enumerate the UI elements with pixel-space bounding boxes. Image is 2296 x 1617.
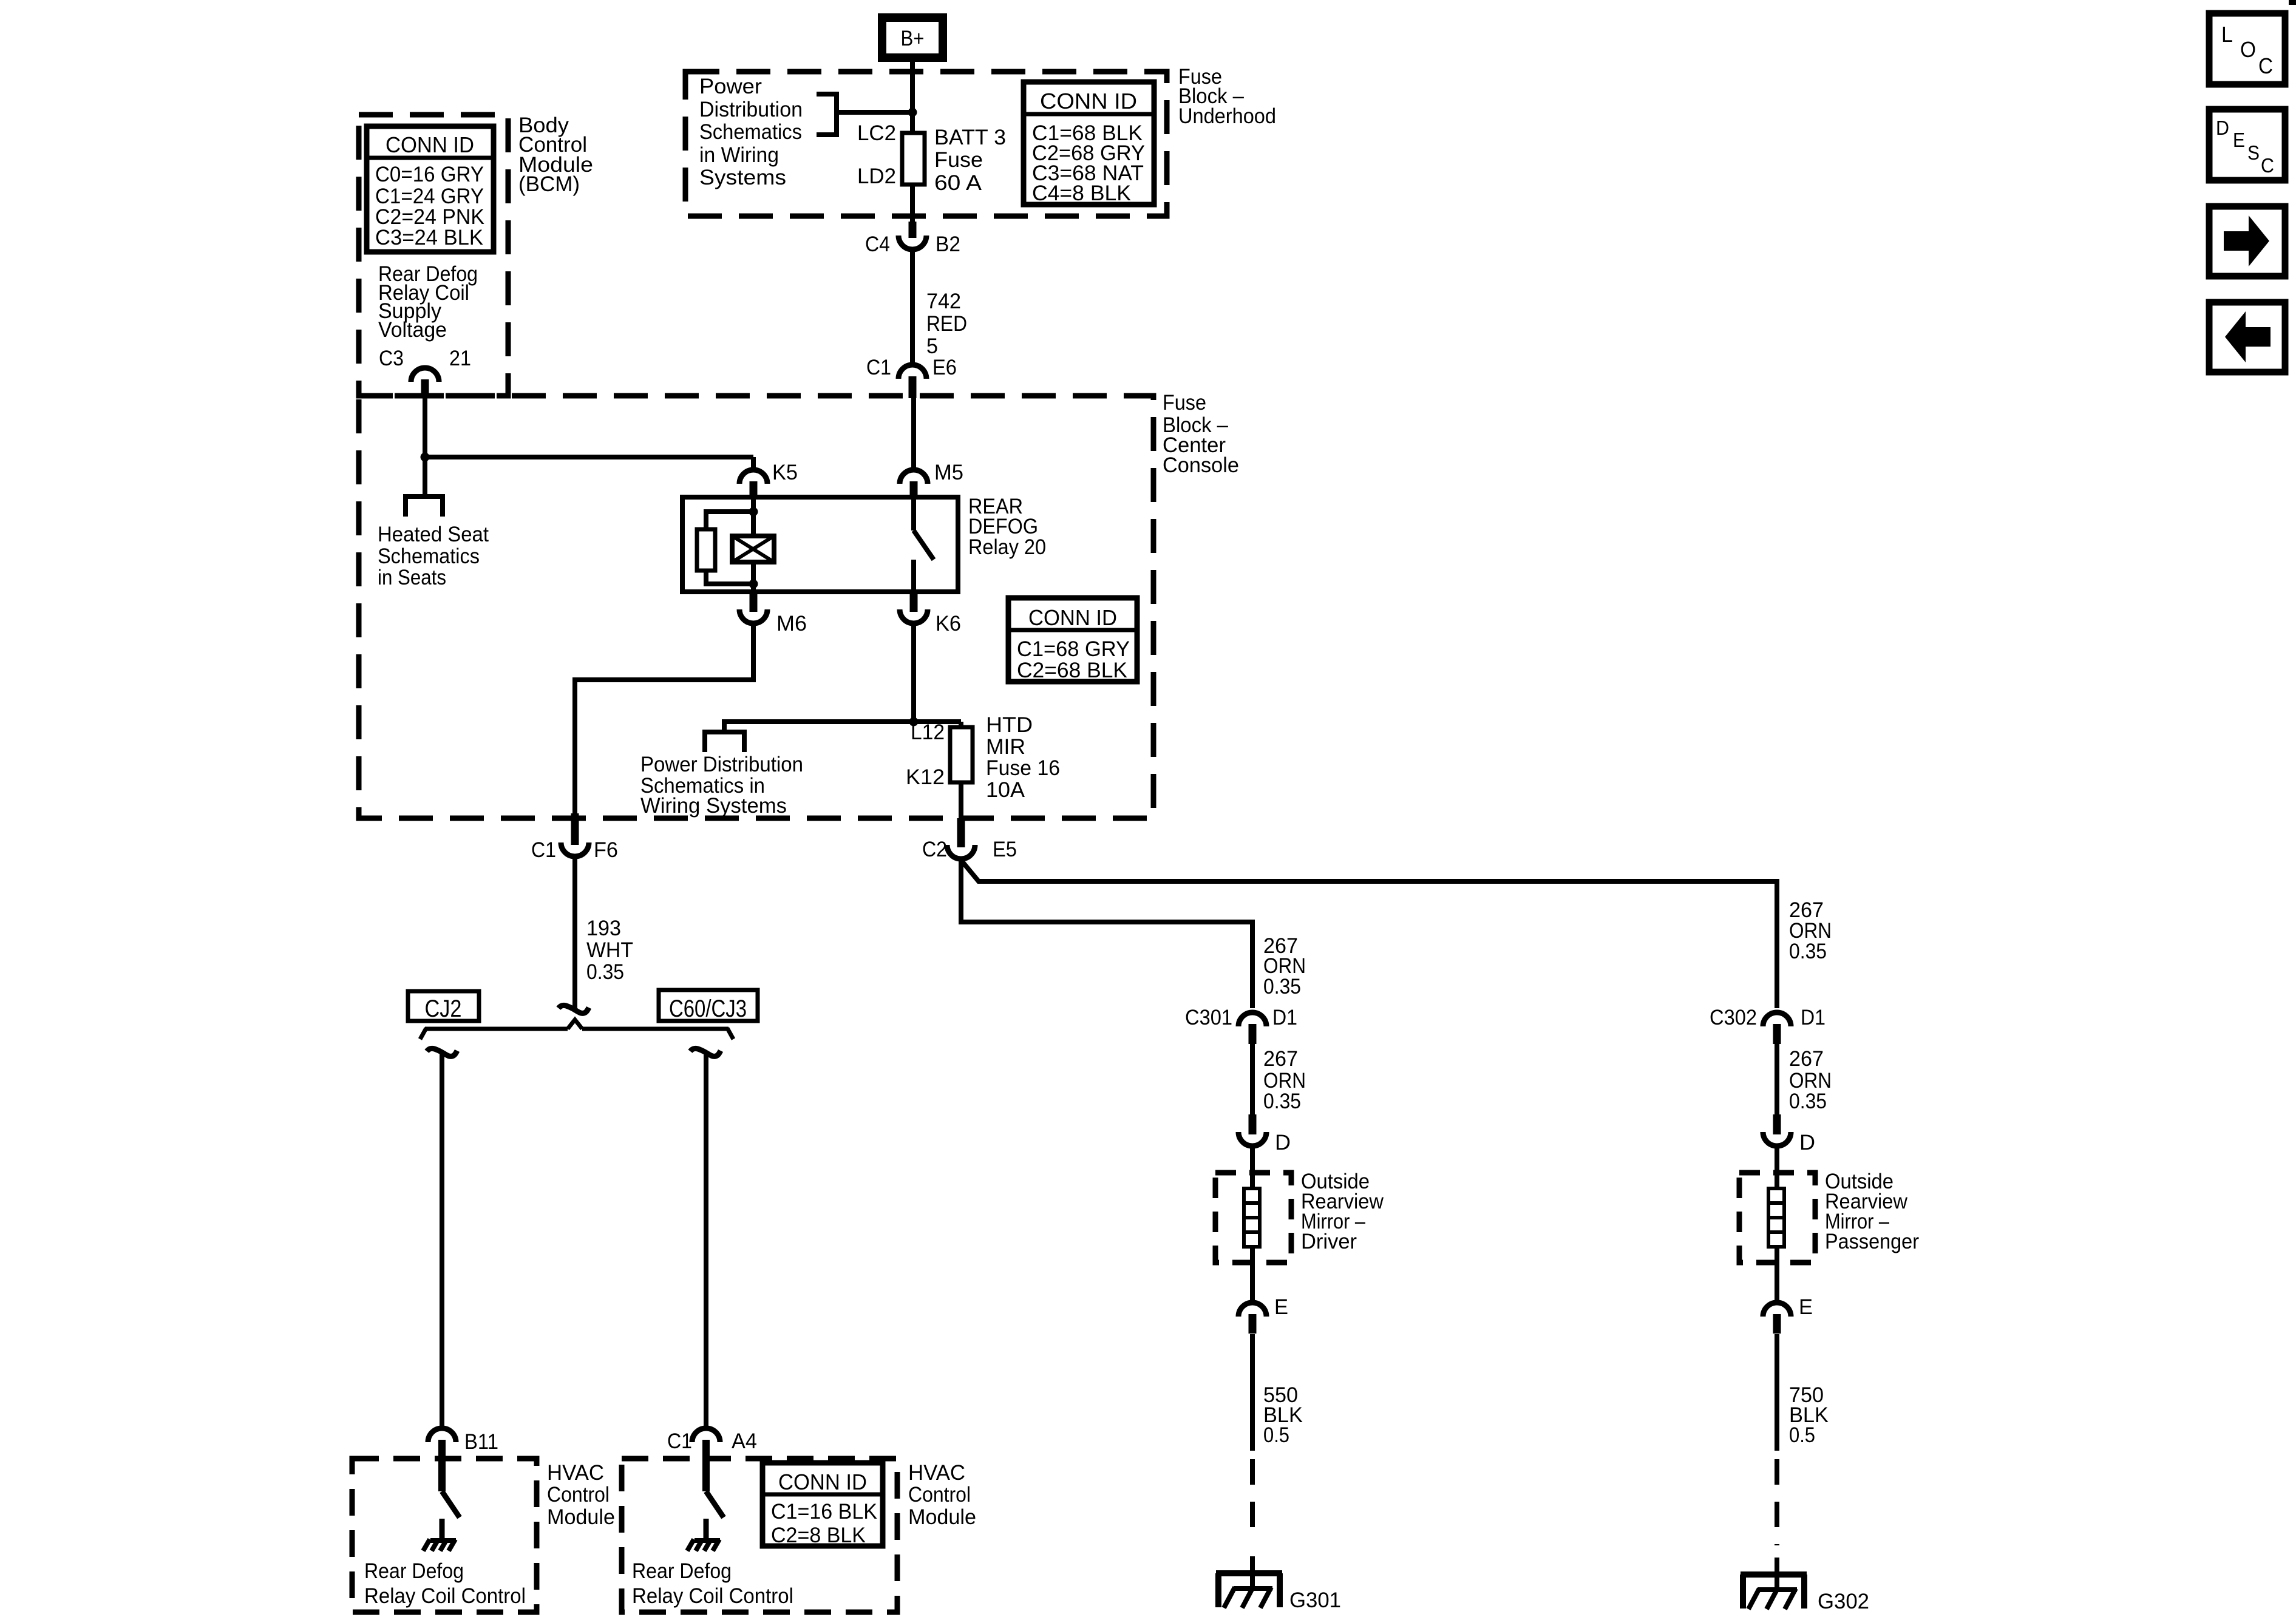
svg-text:CJ2: CJ2 — [425, 995, 462, 1022]
svg-text:CONN ID: CONN ID — [385, 132, 474, 157]
svg-text:L12: L12 — [911, 720, 945, 744]
svg-text:Module: Module — [547, 1505, 615, 1529]
svg-text:(BCM): (BCM) — [518, 172, 580, 196]
svg-text:C1: C1 — [667, 1429, 692, 1453]
svg-text:E6: E6 — [932, 356, 957, 379]
svg-text:Fuse: Fuse — [934, 148, 983, 172]
svg-text:LD2: LD2 — [857, 164, 896, 188]
icon DESC box — [2209, 109, 2285, 180]
svg-text:Control: Control — [908, 1483, 971, 1507]
connector C302 D1 — [1763, 1012, 1791, 1026]
svg-text:B11: B11 — [464, 1430, 498, 1454]
relay coil wire bottom — [751, 562, 756, 592]
svg-text:O: O — [2240, 37, 2256, 62]
svg-text:L: L — [2221, 22, 2233, 47]
svg-text:MIR: MIR — [986, 735, 1025, 759]
connector C60/CJ3 box — [659, 990, 758, 1021]
svg-text:Power: Power — [699, 75, 762, 98]
splice below C60/CJ3 — [690, 1048, 721, 1056]
svg-text:0.35: 0.35 — [586, 960, 624, 984]
connector CJ2 box — [408, 991, 479, 1021]
fuse BATT 3 60A — [902, 133, 925, 185]
connector K5 — [739, 470, 767, 484]
svg-text:CONN ID: CONN ID — [1028, 605, 1117, 630]
connector C1 F6 — [561, 842, 589, 856]
connector C1 E6 — [898, 365, 926, 379]
svg-text:193: 193 — [586, 917, 621, 940]
svg-text:CONN ID: CONN ID — [1040, 89, 1137, 114]
wire to power distribution bracket — [724, 722, 961, 730]
svg-text:D1: D1 — [1801, 1006, 1826, 1029]
svg-text:C302: C302 — [1710, 1006, 1757, 1029]
relay resistor parallel — [706, 512, 753, 529]
wire bracket to node — [837, 110, 912, 115]
svg-text:WHT: WHT — [586, 938, 633, 962]
wire C1 F6 pin — [571, 813, 579, 845]
svg-text:D: D — [1799, 1131, 1815, 1154]
mirror heater element passenger — [1775, 1148, 1779, 1188]
svg-text:HVAC: HVAC — [547, 1461, 604, 1485]
svg-text:Schematics: Schematics — [378, 544, 480, 568]
svg-text:C1=16 BLK: C1=16 BLK — [771, 1500, 877, 1524]
wire E to ground driver — [1250, 1334, 1255, 1451]
wire BCM C3 to junction — [423, 398, 427, 457]
node junction heated seat tap — [421, 453, 430, 462]
icon forward-arrow box — [2209, 206, 2285, 276]
svg-text:267: 267 — [1789, 1047, 1824, 1071]
svg-text:E: E — [2233, 129, 2245, 151]
CONN ID table console — [1008, 598, 1137, 682]
off-page bracket to power distribution — [817, 94, 837, 135]
connector C1 A4 — [692, 1428, 720, 1442]
icon LOC box — [2209, 13, 2285, 84]
outside rearview mirror driver box — [1215, 1173, 1291, 1263]
hvac control module box right — [622, 1459, 897, 1612]
wire B+ to fuse — [910, 62, 915, 133]
svg-text:Systems: Systems — [699, 166, 786, 189]
svg-text:G301: G301 — [1289, 1588, 1341, 1612]
wire junction to heated seat bracket — [423, 457, 427, 497]
svg-text:CONN ID: CONN ID — [778, 1470, 867, 1494]
fuse block underhood box — [685, 72, 1167, 216]
svg-text:Voltage: Voltage — [378, 318, 447, 342]
svg-text:Fuse: Fuse — [1163, 391, 1206, 415]
svg-text:F6: F6 — [594, 838, 618, 862]
switch rear defog relay coil control right — [706, 1491, 724, 1517]
splice below CJ2 — [427, 1048, 457, 1056]
svg-text:C4: C4 — [865, 232, 890, 256]
body control module box — [359, 115, 508, 396]
connector M6 — [750, 592, 758, 612]
svg-text:Passenger: Passenger — [1825, 1230, 1919, 1253]
relay REAR DEFOG Relay 20 box — [682, 497, 958, 592]
splice pack brace — [425, 1020, 729, 1029]
wire fuse 16 to C2-E5 — [959, 782, 963, 818]
svg-text:D1: D1 — [1272, 1006, 1297, 1029]
connector B11 — [428, 1428, 456, 1442]
svg-text:267: 267 — [1263, 1047, 1298, 1071]
svg-text:C: C — [2261, 154, 2274, 177]
svg-text:60 A: 60 A — [934, 171, 982, 195]
svg-text:10A: 10A — [986, 778, 1025, 802]
relay coil wire top — [751, 499, 756, 536]
off-page bracket to heated seat schematics — [406, 497, 443, 517]
svg-text:BATT 3: BATT 3 — [934, 126, 1006, 149]
svg-text:Fuse 16: Fuse 16 — [986, 756, 1060, 780]
wire CJ2 to B11 — [440, 1054, 444, 1428]
svg-text:M6: M6 — [776, 612, 807, 636]
svg-text:K12: K12 — [906, 765, 945, 789]
CONN ID table underhood — [1024, 82, 1154, 205]
svg-text:C2=68 BLK: C2=68 BLK — [1017, 659, 1127, 682]
svg-text:C3: C3 — [379, 347, 404, 370]
svg-text:C4=8 BLK: C4=8 BLK — [1032, 181, 1131, 205]
svg-text:G302: G302 — [1818, 1590, 1869, 1613]
svg-text:HVAC: HVAC — [908, 1461, 965, 1485]
wire C60/CJ3 to A4 — [704, 1054, 708, 1428]
mirror heater element driver — [1250, 1148, 1255, 1188]
svg-text:K5: K5 — [772, 461, 798, 484]
relay coil element — [732, 536, 774, 562]
fuse block center console box — [359, 396, 1153, 818]
connector D passenger — [1773, 1114, 1781, 1134]
wire 742 RED 5 — [910, 251, 915, 364]
svg-text:C1: C1 — [531, 838, 556, 862]
svg-text:C2=8 BLK: C2=8 BLK — [771, 1524, 866, 1547]
svg-text:B+: B+ — [901, 27, 925, 50]
svg-text:RED: RED — [926, 312, 967, 336]
svg-text:Control: Control — [547, 1483, 610, 1507]
svg-text:C: C — [2258, 53, 2273, 78]
svg-text:LC2: LC2 — [857, 121, 896, 145]
svg-text:C60/CJ3: C60/CJ3 — [669, 995, 747, 1022]
connector C301 D1 — [1238, 1012, 1266, 1026]
svg-text:D: D — [2216, 117, 2229, 139]
svg-text:C2: C2 — [922, 838, 947, 861]
relay switch contact — [911, 499, 916, 531]
svg-text:E: E — [1799, 1295, 1813, 1319]
hvac control module box left — [352, 1459, 537, 1612]
svg-text:Underhood: Underhood — [1178, 104, 1276, 128]
wire junction to K5 — [425, 455, 753, 459]
connector M5 — [900, 470, 928, 484]
CONN ID table BCM — [367, 126, 494, 252]
svg-text:0.35: 0.35 — [1263, 1090, 1301, 1113]
icon back-arrow box — [2209, 302, 2285, 372]
svg-text:5: 5 — [926, 334, 938, 358]
svg-text:M5: M5 — [934, 461, 963, 484]
svg-text:0.35: 0.35 — [1789, 1090, 1827, 1113]
connector E driver — [1238, 1303, 1266, 1317]
wire C301 to mirror D — [1250, 1044, 1255, 1117]
svg-text:Relay Coil Control: Relay Coil Control — [632, 1584, 793, 1608]
svg-text:Relay Coil Control: Relay Coil Control — [364, 1584, 526, 1608]
svg-text:E5: E5 — [993, 838, 1017, 861]
svg-text:S: S — [2247, 141, 2260, 164]
svg-text:Relay 20: Relay 20 — [968, 535, 1046, 559]
wire K6 to fuse 16 — [911, 625, 916, 722]
wire E5 to passenger branch — [961, 860, 1777, 1008]
svg-text:D: D — [1275, 1131, 1291, 1154]
CONN ID table hvac — [763, 1463, 883, 1546]
svg-text:in Seats: in Seats — [378, 566, 446, 589]
node K6 branch — [909, 717, 919, 727]
wire E to ground passenger — [1775, 1334, 1779, 1451]
svg-text:C0=16 GRY: C0=16 GRY — [375, 163, 484, 186]
svg-text:742: 742 — [926, 290, 961, 313]
svg-text:Console: Console — [1163, 453, 1239, 477]
svg-text:in Wiring: in Wiring — [699, 143, 779, 167]
fuse HTD MIR 16 10A — [950, 727, 973, 782]
connector K6 — [910, 592, 918, 612]
connector C4 B2 — [909, 222, 917, 238]
wire E5 to driver branch — [961, 860, 1252, 1008]
node coil top — [749, 507, 758, 517]
ground G302 — [1741, 1571, 1807, 1578]
svg-text:B2: B2 — [936, 232, 960, 256]
page-corner tick — [2289, 0, 2296, 5]
svg-text:Distribution: Distribution — [699, 98, 803, 121]
svg-text:Rear Defog: Rear Defog — [364, 1559, 464, 1583]
battery terminal B+ — [882, 18, 943, 58]
connector D driver — [1249, 1114, 1257, 1134]
svg-text:0.5: 0.5 — [1789, 1423, 1815, 1447]
svg-text:Wiring Systems: Wiring Systems — [640, 794, 787, 818]
ground G301 — [1216, 1570, 1282, 1576]
svg-text:0.35: 0.35 — [1789, 940, 1827, 963]
svg-text:21: 21 — [449, 347, 471, 370]
wire node to HTD MIR fuse — [959, 722, 963, 727]
node junction at B+ feed — [908, 108, 917, 117]
connector E passenger — [1763, 1303, 1791, 1317]
switch rear defog relay coil control left — [442, 1491, 460, 1517]
svg-text:Power Distribution: Power Distribution — [640, 753, 803, 776]
svg-text:C3=24 BLK: C3=24 BLK — [375, 226, 483, 249]
wire M6 to F6 — [575, 625, 753, 813]
node coil bottom — [749, 580, 758, 589]
svg-text:C1=68 GRY: C1=68 GRY — [1017, 637, 1130, 661]
wire fuse to C4-B2 — [910, 185, 915, 226]
svg-text:HTD: HTD — [986, 713, 1033, 737]
svg-text:0.5: 0.5 — [1263, 1423, 1289, 1447]
off-page bracket to power distribution (console) — [705, 732, 744, 752]
svg-text:E: E — [1274, 1295, 1288, 1319]
svg-text:A4: A4 — [732, 1429, 757, 1453]
svg-text:Schematics: Schematics — [699, 120, 802, 144]
svg-text:Driver: Driver — [1301, 1230, 1357, 1253]
svg-text:C301: C301 — [1185, 1006, 1232, 1029]
svg-text:Module: Module — [908, 1505, 976, 1529]
outside rearview mirror passenger box — [1739, 1173, 1815, 1263]
svg-text:Rear Defog: Rear Defog — [632, 1559, 732, 1583]
svg-text:C1: C1 — [866, 356, 891, 379]
wire C302 to mirror D — [1775, 1044, 1779, 1117]
svg-text:Heated Seat: Heated Seat — [378, 523, 489, 546]
connector C2 E5 — [957, 818, 965, 847]
svg-text:K6: K6 — [936, 612, 961, 636]
svg-text:0.35: 0.35 — [1263, 975, 1301, 998]
wire 193 WHT 0.35 — [572, 858, 577, 1010]
splice on 193 wire — [559, 1005, 589, 1013]
